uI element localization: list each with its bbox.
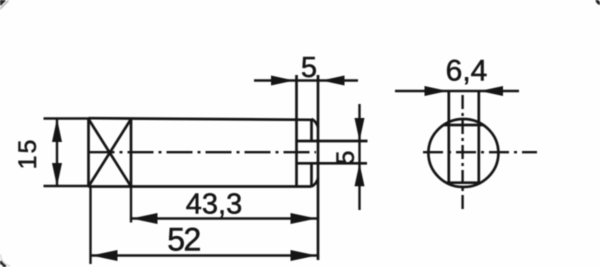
extension line for 43,3 <box>130 187 132 223</box>
arrow 43,3 right <box>291 213 317 224</box>
arrow 15 down <box>52 163 62 187</box>
extension line left of pin for 52 <box>89 187 91 265</box>
arrow 6,4 right (points left) <box>480 86 503 96</box>
end view slot right edge <box>477 91 480 183</box>
scan artifact bottom-left corner <box>0 262 5 267</box>
slot silhouette top line <box>297 140 368 143</box>
centerline side view <box>89 151 317 153</box>
svg-text:52: 52 <box>167 222 200 258</box>
flat-mark diagonal 1 <box>89 119 132 187</box>
svg-text:43,3: 43,3 <box>186 189 242 221</box>
dim line 5 right vertical <box>358 104 360 210</box>
chamfer top <box>312 119 319 127</box>
slot shoulder line <box>295 75 298 187</box>
dim line 52 <box>91 254 317 256</box>
pin body left edge <box>87 119 90 187</box>
chamfer bottom <box>312 179 319 187</box>
arrow 43,3 left <box>132 213 158 224</box>
svg-text:15: 15 <box>14 138 42 170</box>
dim line 6,4 <box>395 90 519 92</box>
svg-text:5: 5 <box>301 52 317 84</box>
end view circle <box>428 119 498 187</box>
flat-mark box right edge <box>130 119 133 187</box>
arrow 52 left <box>92 250 118 261</box>
dim line 43,3 <box>131 217 317 219</box>
centerline end view horizontal <box>423 151 537 153</box>
arrow 52 right <box>291 250 317 261</box>
slot edge stub bottom <box>310 163 313 186</box>
flat-mark diagonal 2 <box>89 119 132 187</box>
arrow 5right down <box>355 118 365 141</box>
scan artifact top-left corner <box>0 0 4 4</box>
arrow 5right up <box>355 163 365 186</box>
slot edge stub top <box>310 119 313 141</box>
arrow 15 up <box>52 119 62 143</box>
arrow 6,4 left (points right) <box>425 86 448 96</box>
extension bottom for 15 <box>44 185 89 187</box>
scan artifact top-right corner <box>597 0 600 3</box>
slot silhouette bottom line <box>297 162 368 165</box>
dim line 15 <box>56 119 58 186</box>
pin right end edge <box>317 75 320 260</box>
svg-text:5: 5 <box>332 151 360 165</box>
arrow 5top right (points left) <box>322 76 345 86</box>
end view slot left edge <box>447 91 450 183</box>
svg-text:6,4: 6,4 <box>446 55 488 88</box>
extension top for 15 <box>44 117 89 119</box>
end view chord top <box>444 124 483 127</box>
end view chord bottom <box>446 181 481 184</box>
centerline end view vertical <box>461 95 463 212</box>
arrow 5top left (points right) <box>271 76 294 86</box>
pin body bottom edge <box>89 185 312 188</box>
pin body top edge <box>89 118 312 120</box>
dim line 5 top <box>254 79 358 81</box>
